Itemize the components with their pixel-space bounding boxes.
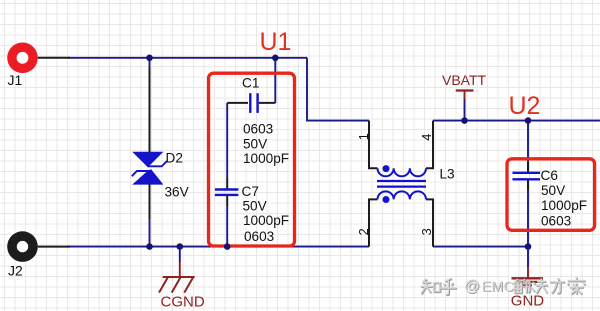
svg-text:L3: L3 [440,167,455,182]
svg-text:2: 2 [357,228,371,235]
wire right rail pin4 to edge [433,120,600,122]
power port GND [511,278,545,309]
transformer L3 bottom winding [378,191,427,203]
value labels C1 [243,122,289,166]
wire GND stem [527,247,529,279]
wire C6 branch top [527,121,529,172]
wire CGND stem [179,247,181,277]
wire bottom right pin3 to GND node [433,246,528,248]
wire corner down to pin1 level [307,58,369,121]
svg-text:U1: U1 [260,28,292,56]
svg-text:3: 3 [420,228,434,235]
svg-text:C7: C7 [242,184,259,199]
junction bottom rail C7 [224,243,231,250]
capacitor C7 [215,184,259,199]
wire C1 to C7 [226,103,228,189]
svg-text:J2: J2 [8,263,23,279]
watermark zhihu [421,277,586,296]
junction VBATT [461,117,468,124]
svg-text:50V: 50V [243,199,267,214]
svg-text:C6: C6 [541,168,558,183]
value label 36V [165,185,189,200]
svg-text:1: 1 [357,133,371,140]
designator D2 [166,151,183,166]
capacitor C1 [227,76,275,113]
designator L3 [440,167,455,182]
svg-text:0603: 0603 [541,213,571,228]
power port VBATT [442,72,487,121]
junction bottom rail D2 [146,243,153,250]
wire top rail J1 to corner [68,57,307,59]
wire C6 to bottom [527,180,529,246]
junction C6 top [525,117,532,124]
capacitor C6 [513,168,558,183]
svg-text:U2: U2 [509,92,541,120]
svg-text:VBATT: VBATT [442,72,487,88]
svg-text:1000pF: 1000pF [243,151,289,166]
svg-text:0603: 0603 [243,122,273,137]
svg-text:GND: GND [511,293,545,310]
svg-text:@: @ [464,278,480,295]
transformer L3 pin 3 [420,199,434,246]
power port CGND (chassis) [159,277,205,310]
transformer L3 pin 2 [357,199,378,246]
wire C1 branch vertical [274,58,276,103]
svg-text:D2: D2 [166,151,183,166]
connector J1 [7,43,70,89]
svg-text:4: 4 [420,134,434,141]
wire C7 to bottom rail [226,196,228,247]
svg-text:36V: 36V [165,185,189,200]
wire D2 branch top [149,58,151,152]
junction bottom GND [525,243,532,250]
value labels C7 [243,199,290,245]
svg-text:50V: 50V [243,136,267,151]
wire D2 branch bottom [149,184,151,247]
annotation box U2 cap [507,159,595,231]
wire bottom rail J2 to pin2 [68,246,369,248]
transformer L3 core [377,181,426,187]
svg-text:J1: J1 [8,72,23,88]
svg-text:0603: 0603 [244,229,274,244]
designator U2 [509,92,541,120]
transformer L3 top winding [378,165,427,176]
transformer L3 pin 1 [357,121,378,169]
transformer L3 pin 4 [420,121,434,169]
diode D2 (bidirectional TVS) [132,152,167,185]
svg-text:CGND: CGND [161,293,205,310]
svg-text:EMC: EMC [482,279,514,295]
junction bottom rail CGND [177,243,184,250]
junction top rail C1 [272,55,279,62]
svg-text:1000pF: 1000pF [541,198,587,213]
value labels C6 [541,183,587,228]
annotation box U1 caps [209,73,295,246]
junction top rail D2 [146,55,153,62]
svg-text:C1: C1 [242,76,259,91]
connector J2 [7,231,70,278]
svg-text:50V: 50V [541,183,565,198]
svg-text:1000pF: 1000pF [243,213,289,228]
designator U1 [260,28,292,56]
